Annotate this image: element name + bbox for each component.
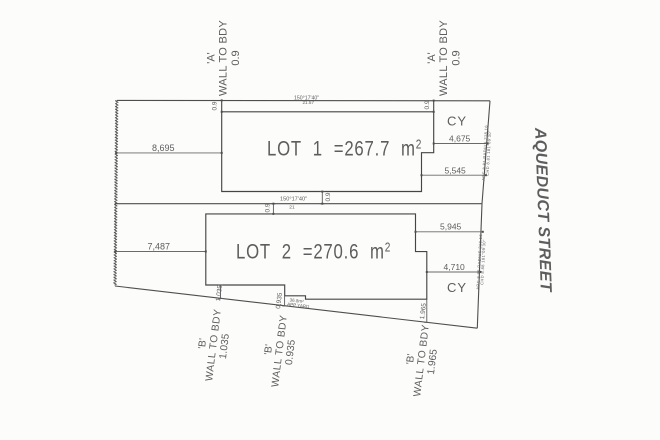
lot division line	[115, 203, 482, 205]
svg-text:LOT 1 =267.7 m2: LOT 1 =267.7 m2	[267, 137, 422, 161]
label wall A right	[426, 20, 463, 96]
label wall B 0.935	[259, 313, 301, 389]
svg-text:0.9: 0.9	[325, 192, 332, 201]
svg-text:LOT 2 =270.6 m2: LOT 2 =270.6 m2	[236, 240, 391, 264]
svg-text:CY: CY	[447, 280, 467, 295]
svg-text:1.035: 1.035	[218, 333, 232, 360]
svg-text:APP YARD: APP YARD	[287, 302, 310, 310]
svg-text:CHD 8.81 181°09'30": CHD 8.81 181°09'30"	[485, 130, 492, 176]
lot 2 outline	[206, 214, 427, 299]
boundary right	[477, 101, 490, 328]
tick wall B 1.035	[218, 285, 223, 298]
tick wall B 0.935	[282, 296, 287, 306]
svg-text:CHD 8.88 181°09'30": CHD 8.88 181°09'30"	[479, 239, 486, 285]
svg-text:5,945: 5,945	[440, 222, 462, 232]
svg-text:5,545: 5,545	[445, 166, 467, 176]
svg-text:0,935: 0,935	[275, 292, 284, 309]
dimension 8.695	[116, 152, 222, 154]
label wall A left	[206, 20, 243, 96]
lot 1 right wall extension	[433, 101, 435, 112]
svg-text:0.9: 0.9	[265, 203, 272, 212]
dimension 4.710	[427, 271, 481, 273]
svg-text:'A': 'A'	[426, 52, 438, 64]
svg-text:4,675: 4,675	[449, 134, 471, 144]
dimension 4.675	[434, 143, 488, 145]
svg-text:7,487: 7,487	[148, 242, 171, 252]
junction dots	[114, 99, 488, 273]
svg-text:WALL TO BDY: WALL TO BDY	[438, 20, 450, 96]
svg-text:150°17'40": 150°17'40"	[280, 197, 307, 203]
label LOT 2 area	[236, 240, 391, 264]
lot 1 left wall extension	[221, 100, 223, 111]
tick 0.9 upper mid	[320, 192, 325, 204]
svg-text:4,710: 4,710	[444, 262, 466, 272]
label wall B 1.035	[193, 307, 235, 383]
boundary top	[117, 99, 490, 101]
svg-text:0.9: 0.9	[230, 50, 242, 65]
svg-text:0.9: 0.9	[212, 101, 219, 110]
svg-text:WALL TO BDY: WALL TO BDY	[218, 20, 230, 96]
label additional yard	[287, 297, 311, 309]
svg-text:1.035: 1.035	[215, 284, 224, 301]
lot 1 outline	[222, 112, 434, 192]
label arc lower	[475, 234, 487, 290]
boundary left hatched	[114, 100, 119, 286]
svg-text:'A': 'A'	[206, 52, 218, 64]
dimension 5.545	[422, 174, 486, 176]
dimension 5.945	[416, 231, 483, 233]
tick 0.9 lower mid	[271, 204, 276, 214]
svg-text:0.9: 0.9	[451, 50, 463, 65]
svg-text:21.57: 21.57	[303, 100, 315, 105]
tick wall B 1.965	[424, 299, 429, 322]
svg-text:0.9: 0.9	[424, 100, 431, 109]
label arc upper	[481, 125, 493, 181]
svg-text:8,695: 8,695	[152, 143, 175, 153]
dimension 7.487	[115, 251, 206, 253]
svg-text:21: 21	[289, 205, 295, 211]
svg-text:1.965: 1.965	[426, 348, 440, 375]
label LOT 1 area	[267, 137, 422, 161]
svg-text:0.935: 0.935	[284, 339, 298, 366]
label wall B 1.965	[401, 322, 443, 398]
svg-text:CY: CY	[447, 114, 467, 129]
boundary bottom	[115, 286, 477, 328]
svg-text:AQUEDUCT STREET: AQUEDUCT STREET	[531, 126, 554, 293]
